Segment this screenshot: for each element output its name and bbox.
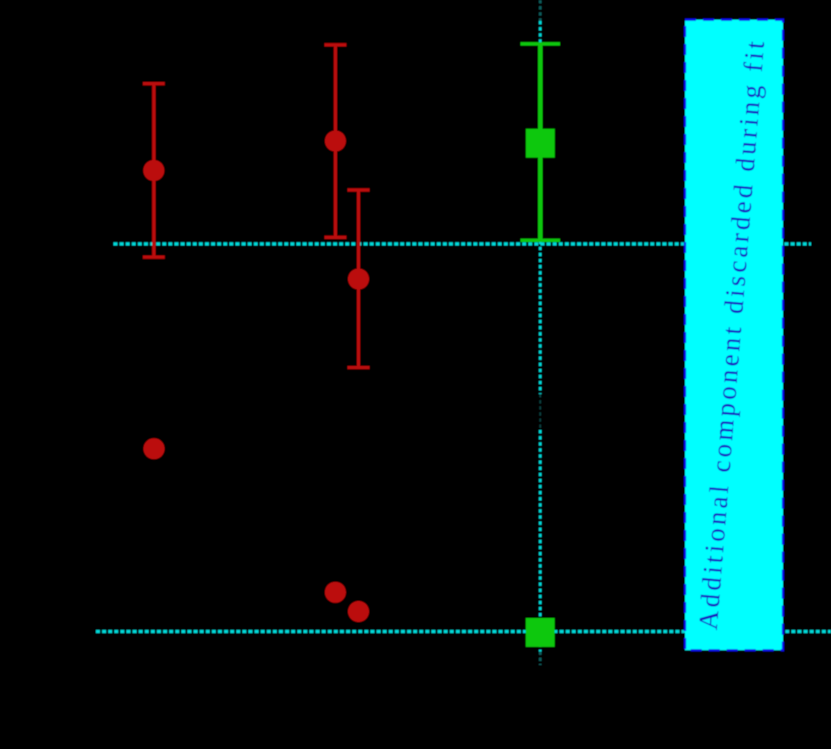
red error bar 1 (x=153.8) <box>152 84 155 258</box>
vertical cyan dotted line (faint middle segment) <box>539 394 541 430</box>
red error bar 2 (x=335.4) <box>334 45 337 238</box>
green square data point 1 <box>526 129 555 158</box>
green error bar (x=540.3) <box>538 44 543 241</box>
cyan annotation box with blue dashed border <box>685 20 783 651</box>
horizontal cyan dotted reference line (upper) <box>114 242 812 245</box>
red data point 2 <box>325 130 346 151</box>
vertical cyan dotted line (bright segment lower) <box>539 430 542 652</box>
vertical cyan dotted line (faint top segment) <box>539 0 542 21</box>
vertical cyan dotted line (faint bottom segment) <box>539 652 542 666</box>
red data point 6 <box>348 601 369 622</box>
red error bar 3 (x=358.5) <box>357 190 360 368</box>
vertical cyan dotted line (bright segment upper) <box>539 21 542 394</box>
horizontal cyan dotted reference line (lower) <box>96 630 831 633</box>
green square data point 2 <box>526 618 555 647</box>
red data point 5 <box>325 582 346 603</box>
red data point 3 <box>348 268 369 289</box>
red data point 4 (no error bar) <box>143 438 164 459</box>
red data point 1 <box>143 160 164 181</box>
